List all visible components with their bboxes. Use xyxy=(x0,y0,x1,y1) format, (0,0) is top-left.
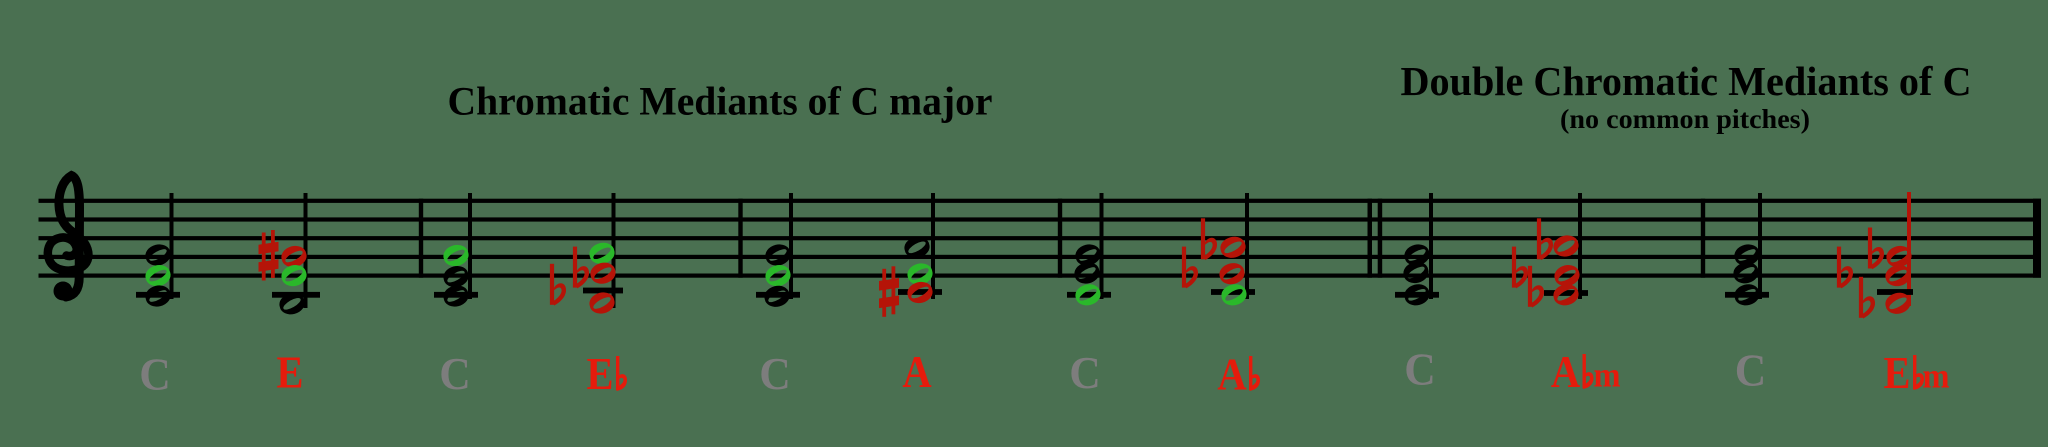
treble clef xyxy=(48,176,89,301)
svg-text:E: E xyxy=(1884,348,1911,398)
chord 5 notehead C4 xyxy=(764,286,789,307)
chord 4 notehead Eb4 xyxy=(590,263,615,284)
chord 3 notehead C4 xyxy=(443,285,468,306)
label Eb flat sign (chord 4) xyxy=(616,356,627,391)
chord 12 notehead Bb3 xyxy=(1885,293,1910,314)
chord 2 notehead G#4 xyxy=(281,246,306,267)
chord 12 flat (Gb4) xyxy=(1870,228,1884,270)
staff line 4 xyxy=(39,255,2042,259)
barline x=421 xyxy=(419,199,423,278)
svg-text:m: m xyxy=(1923,357,1950,396)
chord 7 notehead E4 xyxy=(1074,262,1099,283)
chord 1 notehead E4 (common tone) xyxy=(145,265,170,286)
staff line 1 xyxy=(39,199,2042,203)
chord 11 notehead G4 xyxy=(1734,244,1759,265)
chord 5 notehead G4 xyxy=(765,244,790,265)
chord 5 stem xyxy=(789,193,793,299)
svg-text:C: C xyxy=(139,350,171,400)
chord 5 notehead E4 (common tone) xyxy=(765,265,790,286)
chord 1 ledger line C4 xyxy=(136,292,180,298)
label Ab flat sign (chord 8) xyxy=(1249,356,1260,391)
chord 7 stem xyxy=(1100,193,1104,299)
chord 4 ledger line C4 xyxy=(583,288,623,294)
chord 6 sharp (C#4) xyxy=(879,266,899,317)
chord 2 sharp (G#4) xyxy=(259,230,279,281)
chord 8 flat (Ab4) xyxy=(1203,218,1217,260)
chord 1 notehead G4 xyxy=(145,244,170,265)
barline x=1060 xyxy=(1058,199,1062,278)
chord 12 notehead Gb4 xyxy=(1886,246,1911,267)
chord 12 stem (red) xyxy=(1907,192,1911,306)
chord 2 ledger line C4 xyxy=(272,292,320,298)
label Abm flat sign (chord 10) xyxy=(1583,354,1594,389)
chord 5 ledger line C4 xyxy=(756,292,800,298)
chord 7 ledger line C4 xyxy=(1067,292,1111,298)
chord 8 notehead Ab4 xyxy=(1220,237,1245,258)
chord 10 notehead Eb4 xyxy=(1554,265,1579,286)
final barline xyxy=(2033,199,2041,278)
chord 8 notehead Eb4 xyxy=(1219,263,1244,284)
svg-text:m: m xyxy=(1594,356,1621,395)
chord 10 notehead Cb4 xyxy=(1553,284,1578,305)
chord 11 notehead E4 xyxy=(1733,262,1758,283)
chord 7 notehead G4 xyxy=(1075,244,1100,265)
chord 9 ledger line C4 xyxy=(1395,292,1439,298)
chord 3 notehead G4 (common tone) xyxy=(443,245,468,266)
staff line 3 xyxy=(39,236,2042,240)
chord 10 notehead Ab4 xyxy=(1553,235,1578,256)
svg-text:A: A xyxy=(1551,347,1581,397)
chord 4 notehead G4 (common tone) xyxy=(589,243,614,264)
svg-text:Double Chromatic Mediants of C: Double Chromatic Mediants of C xyxy=(1401,58,1972,104)
chord 6 ledger line C4 xyxy=(898,289,942,295)
svg-text:A: A xyxy=(902,347,932,397)
chord 10 flat (Ab4) xyxy=(1539,218,1553,260)
staff line 5 xyxy=(39,274,2042,278)
chord 4 stem xyxy=(612,193,616,308)
svg-text:(no common pitches): (no common pitches) xyxy=(1560,104,1810,134)
svg-text:E: E xyxy=(277,348,304,398)
chord 10 stem xyxy=(1578,193,1582,299)
barline x=1703 xyxy=(1701,199,1705,278)
chord 10 flat (Eb4) xyxy=(1514,247,1528,289)
chord 9 notehead E4 xyxy=(1403,262,1428,283)
chord 8 flat (Eb4) xyxy=(1184,247,1198,289)
chord 11 notehead C4 xyxy=(1734,284,1759,305)
chord 2 stem xyxy=(304,193,308,308)
chord 6 notehead A4 xyxy=(904,237,929,258)
chord 11 ledger line C4 xyxy=(1725,292,1769,298)
label Ebm flat sign (chord 12) xyxy=(1913,355,1924,390)
chord 8 notehead C4 (common tone) xyxy=(1221,284,1246,305)
chord 8 stem xyxy=(1245,193,1249,299)
svg-text:C: C xyxy=(439,349,471,399)
svg-text:C: C xyxy=(1404,345,1436,395)
chord 3 ledger line C4 xyxy=(434,292,478,298)
chord 1 notehead C4 xyxy=(145,285,170,306)
svg-text:A: A xyxy=(1217,350,1247,400)
chord 6 notehead E4 (common tone) xyxy=(907,263,932,284)
svg-text:C: C xyxy=(1069,348,1101,398)
chord 12 ledger line C4 xyxy=(1877,289,1913,295)
chord 11 stem xyxy=(1758,193,1762,299)
chord 6 notehead C#4 xyxy=(907,282,932,303)
chord 10 ledger line C4 xyxy=(1544,290,1588,296)
chord 4 notehead Bb3 xyxy=(589,292,614,313)
svg-text:Chromatic Mediants of C major: Chromatic Mediants of C major xyxy=(448,79,993,124)
chord 2 notehead E4 (common tone) xyxy=(281,265,306,286)
chord 12 flat (Bb3) xyxy=(1861,277,1875,319)
chord 9 stem xyxy=(1429,193,1433,299)
chord 3 stem xyxy=(468,193,472,299)
barline x=740.5 xyxy=(738,199,742,278)
svg-text:C: C xyxy=(1735,346,1767,396)
svg-text:E: E xyxy=(587,349,614,399)
chord 3 notehead E4 xyxy=(443,266,468,287)
chord 9 notehead C4 xyxy=(1404,284,1429,305)
chord 2 notehead B3 xyxy=(279,293,304,314)
chord 4 flat (Eb4) xyxy=(575,247,589,289)
chord 6 stem xyxy=(931,193,935,299)
staff line 2 xyxy=(39,217,2042,221)
svg-text:C: C xyxy=(759,349,791,399)
chord 4 flat (Bb3) xyxy=(552,264,566,306)
chord 9 notehead G4 xyxy=(1404,244,1429,265)
chord 10 flat (Cb4) xyxy=(1530,266,1544,308)
chord 12 flat (Eb4) xyxy=(1839,247,1853,289)
chord 7 notehead C4 (common tone) xyxy=(1075,284,1100,305)
chord 8 ledger line C4 xyxy=(1211,289,1255,295)
double barline xyxy=(1368,199,1373,278)
chord 12 notehead Eb4 xyxy=(1885,265,1910,286)
chord 1 stem xyxy=(170,193,174,299)
